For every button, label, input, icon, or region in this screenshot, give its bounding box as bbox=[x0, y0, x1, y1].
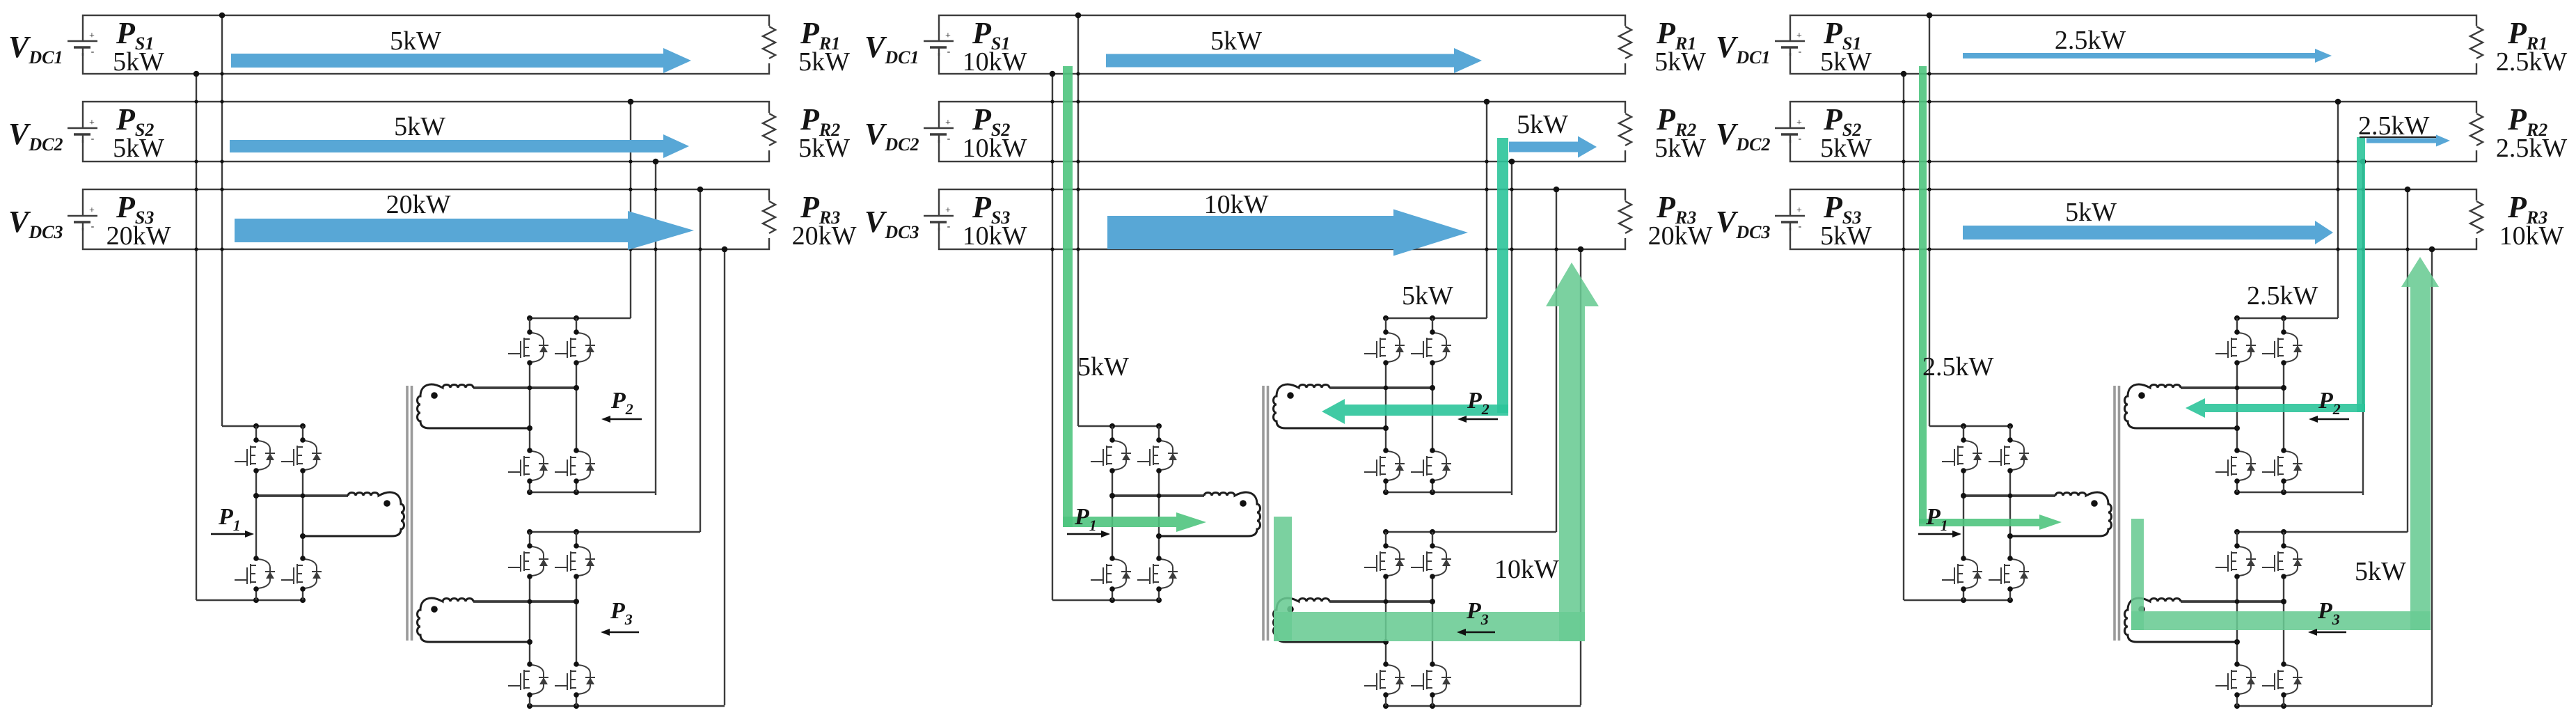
wire bus-drop 2b bbox=[1509, 159, 1515, 495]
mosfet Q22 bbox=[555, 329, 595, 366]
svg-text:-: - bbox=[91, 221, 95, 232]
DC bus loop 1 bbox=[939, 15, 1625, 74]
svg-text:10kW: 10kW bbox=[963, 221, 1027, 251]
battery V_DC3 bbox=[1774, 205, 1806, 232]
label V_DC2 bbox=[1716, 117, 1770, 155]
bridge 1 top rail bbox=[1929, 423, 2013, 429]
mosfet Q24 bbox=[1411, 448, 1451, 484]
bridge 1 top rail bbox=[1078, 423, 1162, 429]
label 5kW flow bus1 (panel 2) bbox=[1210, 26, 1262, 56]
label P_2 bbox=[2318, 388, 2341, 418]
mosfet Q12 bbox=[281, 437, 322, 473]
label V_DC2 bbox=[864, 117, 919, 155]
wire bridge leg bbox=[576, 318, 577, 492]
battery V_DC1 bbox=[923, 31, 955, 57]
svg-text:-: - bbox=[947, 47, 951, 57]
label 5kW flow bus2 (panel 2) bbox=[1517, 110, 1568, 139]
svg-text:5kW: 5kW bbox=[1654, 47, 1706, 77]
bridge 1 top rail bbox=[222, 423, 306, 429]
wire bus-drop 1b bbox=[1901, 71, 1907, 600]
blue arrow 5kW bus 2 bbox=[230, 134, 689, 158]
resistor load P_R1 bbox=[2469, 26, 2484, 63]
svg-text:5kW: 5kW bbox=[2355, 557, 2406, 586]
DC bus loop 1 bbox=[1790, 15, 2476, 74]
svg-text:+: + bbox=[89, 31, 95, 41]
bridge 1 bottom rail bbox=[1904, 597, 2013, 603]
label P_R3 20kW bbox=[792, 190, 857, 251]
transformer winding 3 bbox=[418, 598, 580, 645]
bridge 3 top rail bbox=[2234, 529, 2408, 535]
label P_S1 5kW bbox=[1820, 16, 1872, 77]
svg-text:+: + bbox=[1796, 31, 1802, 41]
svg-text:5kW: 5kW bbox=[1210, 26, 1262, 56]
label V_DC3 bbox=[8, 205, 63, 242]
arrow P_1 direction bbox=[1067, 531, 1110, 537]
transformer core bbox=[1263, 386, 1268, 641]
svg-text:5kW: 5kW bbox=[1517, 110, 1568, 139]
svg-text:5kW: 5kW bbox=[390, 26, 441, 56]
wire bridge leg bbox=[2283, 532, 2284, 706]
mosfet Q33 bbox=[1364, 661, 1405, 698]
resistor load P_R2 bbox=[1618, 113, 1633, 150]
svg-text:20kW: 20kW bbox=[1648, 221, 1713, 251]
svg-text:-: - bbox=[91, 47, 95, 57]
mosfet Q12 bbox=[1137, 437, 1178, 473]
label 20kW flow bus3 bbox=[386, 190, 451, 219]
mosfet Q34 bbox=[2262, 661, 2302, 698]
wire bus-drop 3b bbox=[2429, 246, 2435, 705]
label P_R2 5kW bbox=[798, 102, 850, 163]
wire bridge leg bbox=[576, 532, 577, 706]
mosfet Q33 bbox=[508, 661, 548, 698]
wire bus-drop 1b bbox=[1050, 71, 1056, 600]
label P_1 bbox=[218, 504, 241, 534]
wire bridge leg bbox=[302, 426, 303, 600]
transformer winding 1 bbox=[1109, 492, 1261, 539]
DC bus loop 3 bbox=[83, 189, 769, 249]
wire bridge leg bbox=[2236, 532, 2238, 706]
label 2.5kW green path P2 (panel 3) bbox=[2247, 281, 2318, 311]
label 5kW flow bus2 bbox=[394, 112, 445, 141]
label P_R1 5kW bbox=[798, 16, 850, 77]
label P_3 bbox=[1466, 598, 1489, 628]
label P_S1 5kW bbox=[113, 16, 164, 77]
svg-text:10kW: 10kW bbox=[1204, 190, 1269, 219]
resistor load P_R2 bbox=[2469, 113, 2484, 150]
battery V_DC2 bbox=[1774, 118, 1806, 144]
wire bus-drop 2a bbox=[1484, 99, 1490, 318]
label V_DC1 bbox=[8, 30, 63, 68]
bridge 2 bottom rail bbox=[2234, 489, 2363, 495]
battery V_DC1 bbox=[1774, 31, 1806, 57]
label P_S1 10kW bbox=[963, 16, 1027, 77]
label 5kW green path P1 (panel 2) bbox=[1077, 352, 1129, 382]
mosfet Q24 bbox=[2262, 448, 2302, 484]
svg-text:+: + bbox=[945, 118, 951, 128]
label V_DC1 bbox=[1716, 30, 1770, 68]
svg-text:5kW: 5kW bbox=[798, 134, 850, 163]
label 10kW green path P3 (panel 2) bbox=[1494, 555, 1559, 584]
wire bus-drop 1b bbox=[193, 71, 200, 600]
blue arrow 2.5kW bus 2 (panel 3) bbox=[2366, 135, 2450, 147]
wire bridge leg bbox=[1432, 318, 1433, 492]
mosfet Q21 bbox=[508, 329, 548, 366]
wire bus-drop 3b bbox=[1578, 246, 1584, 705]
wire bridge leg bbox=[1385, 318, 1386, 492]
wire bridge leg bbox=[529, 318, 530, 492]
label P_S3 20kW bbox=[106, 190, 171, 251]
label P_1 bbox=[1074, 504, 1097, 534]
wire bus-drop 2a bbox=[2335, 99, 2341, 318]
mosfet Q23 bbox=[508, 448, 548, 484]
svg-text:2.5kW: 2.5kW bbox=[2055, 26, 2126, 55]
mosfet Q34 bbox=[1411, 661, 1451, 698]
svg-text:5kW: 5kW bbox=[1820, 134, 1872, 163]
mosfet Q13 bbox=[1091, 556, 1131, 592]
svg-text:10kW: 10kW bbox=[963, 47, 1027, 77]
bridge 3 bottom rail bbox=[2234, 703, 2432, 709]
mosfet Q23 bbox=[2215, 448, 2256, 484]
blue arrow 2.5kW bus 1 (panel 3) bbox=[1963, 49, 2332, 63]
wire bus-drop 3a bbox=[697, 187, 704, 532]
wire bus-drop 2b bbox=[2360, 159, 2366, 495]
transformer winding 1 bbox=[253, 492, 404, 539]
arrow P_2 direction bbox=[2309, 416, 2349, 423]
mosfet Q11 bbox=[1091, 437, 1131, 473]
label V_DC1 bbox=[864, 30, 919, 68]
svg-text:-: - bbox=[1799, 47, 1802, 57]
arrow P_3 direction bbox=[601, 629, 639, 636]
mosfet Q12 bbox=[1989, 437, 2029, 473]
svg-text:10kW: 10kW bbox=[963, 134, 1027, 163]
mosfet Q24 bbox=[555, 448, 595, 484]
bridge 2 top rail bbox=[527, 315, 631, 321]
svg-text:5kW: 5kW bbox=[394, 112, 445, 141]
label 5kW green path P3 (panel 3) bbox=[2355, 557, 2406, 586]
DC bus loop 2 bbox=[83, 102, 769, 162]
bridge 3 top rail bbox=[527, 529, 700, 535]
blue arrow 20kW bus 3 bbox=[235, 211, 694, 250]
DC bus loop 3 bbox=[1790, 189, 2476, 249]
svg-text:5kW: 5kW bbox=[113, 134, 164, 163]
battery V_DC3 bbox=[67, 205, 99, 232]
mosfet Q33 bbox=[2215, 661, 2256, 698]
mosfet Q32 bbox=[2262, 543, 2302, 579]
wire bridge leg bbox=[1112, 426, 1113, 600]
wire bridge leg bbox=[2009, 426, 2011, 600]
svg-text:2.5kW: 2.5kW bbox=[2496, 134, 2568, 163]
bridge 1 bottom rail bbox=[1052, 597, 1162, 603]
resistor load P_R2 bbox=[761, 113, 777, 150]
arrow P_1 direction bbox=[211, 531, 254, 537]
label P_1 bbox=[1925, 504, 1948, 534]
label 2.5kW flow bus2 (panel 3) bbox=[2358, 111, 2436, 141]
resistor load P_R3 bbox=[1618, 201, 1633, 238]
svg-text:2.5kW: 2.5kW bbox=[1922, 352, 1994, 382]
svg-text:20kW: 20kW bbox=[792, 221, 857, 251]
mosfet Q13 bbox=[235, 556, 275, 592]
mosfet Q21 bbox=[2215, 329, 2256, 366]
green power path P_1 2.5kW (panel 3) bbox=[1919, 66, 2062, 530]
wire bus-drop 3a bbox=[1554, 187, 1560, 532]
svg-text:2.5kW: 2.5kW bbox=[2358, 111, 2430, 141]
DC bus loop 2 bbox=[1790, 102, 2476, 162]
svg-text:10kW: 10kW bbox=[2499, 221, 2564, 251]
label P_3 bbox=[610, 598, 633, 628]
label V_DC3 bbox=[864, 205, 919, 242]
green power path P_3 10kW (panel 2) bbox=[1274, 262, 1599, 641]
arrow P_3 direction bbox=[1457, 629, 1495, 636]
battery V_DC3 bbox=[923, 205, 955, 232]
blue arrow 5kW bus 3 (panel 3) bbox=[1963, 221, 2333, 244]
transformer winding 2 bbox=[1274, 384, 1435, 431]
svg-text:+: + bbox=[89, 205, 95, 216]
resistor load P_R3 bbox=[761, 201, 777, 238]
wire bus-drop 3a bbox=[2405, 187, 2411, 532]
wire bus-drop 3b bbox=[722, 246, 728, 705]
svg-text:+: + bbox=[945, 205, 951, 216]
bridge 2 bottom rail bbox=[1383, 489, 1512, 495]
svg-text:-: - bbox=[947, 134, 951, 144]
label 5kW flow bus1 bbox=[390, 26, 441, 56]
label P_3 bbox=[2317, 598, 2340, 628]
svg-text:2.5kW: 2.5kW bbox=[2247, 281, 2318, 311]
arrow P_2 direction bbox=[601, 416, 642, 423]
label P_2 bbox=[610, 388, 633, 418]
bridge 2 bottom rail bbox=[527, 489, 656, 495]
battery V_DC1 bbox=[67, 31, 99, 57]
wire bus-drop 1a bbox=[1927, 13, 1933, 426]
mosfet Q11 bbox=[235, 437, 275, 473]
label 5kW flow bus3 (panel 3) bbox=[2065, 198, 2117, 227]
svg-text:-: - bbox=[1799, 134, 1802, 144]
green power path P_2 5kW (panel 2) bbox=[1322, 138, 1508, 424]
svg-text:-: - bbox=[91, 134, 95, 144]
wire bus-drop 2b bbox=[653, 159, 659, 495]
wire bridge leg bbox=[2236, 318, 2238, 492]
label P_R2 2.5kW bbox=[2496, 102, 2568, 163]
svg-text:5kW: 5kW bbox=[1402, 281, 1453, 311]
transformer core bbox=[407, 386, 412, 641]
DC bus loop 3 bbox=[939, 189, 1625, 249]
blue arrow 10kW bus 3 (panel 2) bbox=[1107, 210, 1468, 256]
mosfet Q34 bbox=[555, 661, 595, 698]
wire bridge leg bbox=[2283, 318, 2284, 492]
battery V_DC2 bbox=[67, 118, 99, 144]
label 10kW flow bus3 (panel 2) bbox=[1204, 190, 1269, 219]
transformer winding 3 bbox=[2125, 598, 2287, 645]
svg-text:+: + bbox=[1796, 205, 1802, 216]
green power path P_3 5kW (panel 3) bbox=[2131, 257, 2439, 630]
label P_R3 10kW bbox=[2499, 190, 2564, 251]
label V_DC2 bbox=[8, 117, 63, 155]
label P_R1 2.5kW bbox=[2496, 16, 2568, 77]
wire bridge leg bbox=[1432, 532, 1433, 706]
wire bridge leg bbox=[1158, 426, 1160, 600]
svg-text:+: + bbox=[945, 31, 951, 41]
bridge 2 top rail bbox=[1383, 315, 1487, 321]
resistor load P_R1 bbox=[761, 26, 777, 63]
wire bridge leg bbox=[1385, 532, 1386, 706]
svg-text:5kW: 5kW bbox=[2065, 198, 2117, 227]
svg-text:+: + bbox=[89, 118, 95, 128]
blue arrow 5kW bus 2 (panel 2) bbox=[1509, 136, 1597, 158]
label P_2 bbox=[1467, 388, 1490, 418]
wire bus-drop 2a bbox=[628, 99, 634, 318]
mosfet Q32 bbox=[1411, 543, 1451, 579]
label P_S2 5kW bbox=[1820, 102, 1872, 163]
svg-text:5kW: 5kW bbox=[798, 47, 850, 77]
svg-text:5kW: 5kW bbox=[1654, 134, 1706, 163]
arrow P_3 direction bbox=[2308, 629, 2346, 636]
svg-text:-: - bbox=[947, 221, 951, 232]
svg-text:-: - bbox=[1799, 221, 1802, 232]
DC bus loop 2 bbox=[939, 102, 1625, 162]
transformer winding 2 bbox=[418, 384, 580, 431]
label 2.5kW green path P1 (panel 3) bbox=[1922, 352, 1994, 382]
svg-text:20kW: 20kW bbox=[386, 190, 451, 219]
svg-text:20kW: 20kW bbox=[106, 221, 171, 251]
mosfet Q31 bbox=[2215, 543, 2256, 579]
bridge 3 bottom rail bbox=[527, 703, 725, 709]
transformer winding 3 bbox=[1274, 598, 1435, 645]
svg-text:5kW: 5kW bbox=[1077, 352, 1129, 382]
mosfet Q14 bbox=[281, 556, 322, 592]
arrow P_1 direction bbox=[1918, 531, 1961, 537]
label P_S3 10kW bbox=[963, 190, 1027, 251]
mosfet Q14 bbox=[1137, 556, 1178, 592]
bridge 1 bottom rail bbox=[196, 597, 306, 603]
wire bridge leg bbox=[529, 532, 530, 706]
svg-text:2.5kW: 2.5kW bbox=[2496, 47, 2568, 77]
svg-text:10kW: 10kW bbox=[1494, 555, 1559, 584]
label 5kW green path P2 (panel 2) bbox=[1402, 281, 1453, 311]
blue arrow 5kW bus 1 bbox=[231, 48, 691, 73]
wire bridge leg bbox=[1963, 426, 1964, 600]
green power path P_2 2.5kW (panel 3) bbox=[2186, 137, 2365, 418]
label P_S2 5kW bbox=[113, 102, 164, 163]
wire bridge leg bbox=[255, 426, 257, 600]
label P_R3 20kW bbox=[1648, 190, 1713, 251]
label P_S3 5kW bbox=[1820, 190, 1872, 251]
wire bus-drop 1a bbox=[1075, 13, 1082, 426]
resistor load P_R1 bbox=[1618, 26, 1633, 63]
battery V_DC2 bbox=[923, 118, 955, 144]
svg-text:5kW: 5kW bbox=[1820, 221, 1872, 251]
mosfet Q14 bbox=[1989, 556, 2029, 592]
label P_S2 10kW bbox=[963, 102, 1027, 163]
mosfet Q31 bbox=[1364, 543, 1405, 579]
mosfet Q11 bbox=[1942, 437, 1982, 473]
mosfet Q31 bbox=[508, 543, 548, 579]
transformer winding 1 bbox=[1961, 492, 2112, 539]
bridge 3 top rail bbox=[1383, 529, 1556, 535]
transformer winding 2 bbox=[2125, 384, 2287, 431]
arrow P_2 direction bbox=[1457, 416, 1498, 423]
label P_R1 5kW bbox=[1654, 16, 1706, 77]
label V_DC3 bbox=[1716, 205, 1770, 242]
svg-text:5kW: 5kW bbox=[113, 47, 164, 77]
wire bus-drop 1a bbox=[219, 13, 226, 426]
label 2.5kW flow bus1 (panel 3) bbox=[2055, 26, 2126, 55]
mosfet Q21 bbox=[1364, 329, 1405, 366]
mosfet Q22 bbox=[2262, 329, 2302, 366]
label P_R2 5kW bbox=[1654, 102, 1706, 163]
bridge 2 top rail bbox=[2234, 315, 2338, 321]
mosfet Q23 bbox=[1364, 448, 1405, 484]
mosfet Q32 bbox=[555, 543, 595, 579]
DC bus loop 1 bbox=[83, 15, 769, 74]
bridge 3 bottom rail bbox=[1383, 703, 1581, 709]
svg-text:5kW: 5kW bbox=[1820, 47, 1872, 77]
svg-text:+: + bbox=[1796, 118, 1802, 128]
mosfet Q22 bbox=[1411, 329, 1451, 366]
mosfet Q13 bbox=[1942, 556, 1982, 592]
resistor load P_R3 bbox=[2469, 201, 2484, 238]
transformer core bbox=[2115, 386, 2119, 641]
green power path P_1 5kW (panel 2) bbox=[1063, 66, 1206, 532]
blue arrow 5kW bus 1 (panel 2) bbox=[1106, 48, 1482, 73]
